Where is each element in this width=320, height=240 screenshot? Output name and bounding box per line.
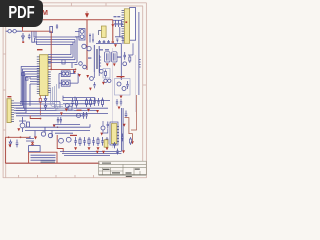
ground flag Q5 [34,137,37,140]
ground flag Q11 [65,109,68,112]
ground flag Q21 [89,88,92,91]
regulator U6 small yellow [104,140,108,147]
capacitor C17 [121,134,124,142]
label CN1 red [7,96,11,97]
wire feedback red-brown path [125,118,133,142]
decoupling caps C10-C12 under VCC [114,20,122,27]
wire lower left links [25,124,90,138]
ground flag aux [120,76,123,79]
audio amp box [115,79,131,96]
wire U6 links [103,121,108,134]
wire right vertical rail [138,12,140,95]
wire bus nest top-left [34,31,77,44]
wire aux bus lines [20,102,60,109]
comparator stage box B [61,80,70,86]
IC U3 body [124,9,129,44]
power flag arrow on B+ [85,11,88,18]
label red bus text [77,110,82,111]
ground flag left [17,128,20,131]
IC U1 main controller body [40,55,48,96]
ground flag C26 [118,107,121,110]
transistor Q14 [122,87,126,91]
wire red primary drop [50,31,52,69]
ground flag Q10 [86,75,89,78]
capacitor C15 [126,81,129,89]
diode D6 [9,140,12,148]
regulator U5 outline [110,122,118,145]
resistor R8 in box [105,70,107,78]
wire reset red path [30,116,40,119]
transistor Q19 [77,114,81,118]
polarity star mark [31,141,34,145]
capacitor C5 row above rail [98,40,110,43]
transistor Q15 [59,138,64,143]
node junction dot [75,69,77,71]
diode pair below U1 [44,96,47,111]
connector CN1 pins [11,101,14,122]
capacitor C19 [116,149,119,155]
transistor Q20 [101,126,105,130]
IC U3 pins [122,10,125,40]
title block text [102,163,140,177]
capacitor C22 pair [82,112,87,119]
net label text above caps [114,16,121,17]
node red dot mid [57,126,59,128]
transistor Q9 [79,62,83,66]
diode D7 pair [113,142,116,148]
winding aux [100,55,102,70]
ground flag Q9 [78,74,81,77]
capacitor C1 [28,34,31,40]
resistor R14 [130,137,132,145]
net stub end mark [112,41,114,43]
node dot red b [20,136,22,138]
ground flag R8 box [102,82,105,85]
red output box left vertical [4,137,6,163]
wire harness U1 left to CN1 [14,67,40,114]
wire red vertical left of band [57,135,63,152]
relay K1 box [29,146,40,152]
thermistor RT1 red below U1 [39,96,41,116]
capacitor C16 [125,111,128,118]
capacitor C26 pair below audio [116,99,122,106]
crystal cluster on harness [22,73,28,81]
diode D1 [22,33,25,41]
ground flag C9b [96,110,99,113]
ground flag E2 [113,63,116,66]
transistor Q6 [48,133,52,137]
wire red from U1 to regulators [43,68,76,70]
capacitor C20 [116,39,118,43]
ground flag Q20 [100,133,103,136]
ground flag R11 [87,109,90,112]
ground flags band row [74,147,108,150]
transistor Q17 [99,69,103,73]
wire main B+ red horizontal [43,20,113,70]
ground flag bus [60,112,63,115]
wire vertical pair right [121,108,123,152]
PDF badge overlay [0,0,43,27]
wire bus in red box [31,155,56,160]
wire gray corner pair [55,84,74,110]
electrolytic cap E1 [105,52,110,62]
ground flag audio [120,96,123,99]
label U1 red designator [37,49,43,50]
ground flag title area a [96,151,99,154]
wire box mid [62,60,65,64]
wire aux vertical [120,43,122,80]
node red dot [40,118,42,120]
transformer T1 [94,45,99,72]
wire bus U1 right nest [48,37,77,62]
regulator U4 small yellow body [101,26,106,37]
connector CN1 body [7,99,11,123]
comparator stage box A [61,71,70,77]
electrolytic cap E2 [112,52,117,62]
diode bridge D3 D4 [89,34,94,43]
wire red bottom long [5,162,99,164]
wire U3 lower links [115,27,123,44]
transistor Q5 [41,132,45,136]
transistor Q13 [117,82,121,86]
section divider line left [112,48,114,148]
transistor Q2 [87,46,91,50]
capacitor C24 top [56,24,58,29]
diode D2 mark [22,41,24,43]
wire band bus lines [60,151,121,155]
transistor Q1 [82,44,86,48]
snubber box lower [103,69,110,79]
transistor Q4 [66,72,69,75]
ground flag C19 [122,150,125,153]
inductor L2 bumps [139,60,141,68]
wire mid rails [63,96,110,104]
red inner frame box [29,152,57,163]
resistor R12 [129,55,131,63]
transistor Q16 [66,137,71,142]
sheet border frame [3,3,147,178]
ground flag C16 [123,124,126,127]
resistor R11 row [86,98,104,108]
ground flag secondary [114,44,117,47]
inductor L3 [26,136,34,141]
IC U1 right pins [48,57,51,93]
IC U1 left pins [37,57,40,94]
varistor RV1 [50,27,53,33]
power flag on B+ drop [111,24,114,27]
fuse F1 and inductor L1 on AC input [6,30,23,33]
ground flag mid bus [53,125,56,128]
wire AC red segment [23,28,52,32]
node dot red a [8,136,10,138]
capacitor C23 [107,122,109,129]
wire stage links [59,63,78,89]
capacitor bank row [74,137,108,146]
wire secondary rail [96,42,121,44]
power flag feedback [131,141,134,144]
wire lower rail A [53,124,80,126]
label red band text [70,135,77,136]
node junction dot b [50,69,52,71]
transistor Q22 [104,79,107,82]
wire input branch [32,31,35,42]
wire transformer secondary drops [94,72,99,78]
capacitor C21 pair [57,117,62,124]
label red above audio box [117,76,125,77]
red output box top [5,136,30,138]
U5 pins [117,127,119,142]
ground flag title area b [102,151,105,154]
transistor Q10 [83,65,87,69]
wire feedback brown right [131,95,137,130]
optocoupler PC1 [75,29,85,40]
capacitor C7 column [123,52,126,60]
wire U4 input [99,31,102,36]
crystal Y1 cluster [19,117,30,132]
capacitor C18 [16,140,19,148]
op-amp U3 outline box [130,8,136,41]
transistor Q21 [90,77,94,81]
transistor Q8 [66,82,69,85]
page background [0,0,149,198]
connector J2 gray segment [41,161,56,162]
transistor Q18 [123,62,127,66]
transistor Q23 [108,79,111,82]
wire aux link [128,43,133,55]
ground flag at B+ node [73,71,76,74]
transistor Q7 [62,82,65,85]
capacitor C25 [93,82,95,88]
section divider line right [135,55,137,112]
transformer T1 core [96,49,97,69]
title block table [99,161,147,175]
wire VCC link blue [113,19,122,21]
net label specks blue [88,49,121,58]
ground flag E1 [106,63,109,66]
capacitor C9 [71,98,74,106]
transistor Q11 [65,104,69,108]
resistor R10 [76,98,78,108]
junction box bus [68,106,72,110]
wire main data bus horizontal [16,108,108,116]
pin mark red U3 [125,21,127,23]
ground flag D6 [8,144,11,147]
wire corner bundle blue [51,87,63,106]
power flag on AC node [21,26,24,29]
regulator U5 body [111,124,116,144]
transistor Q3 [62,72,65,75]
title block bottom heavy line [99,174,147,176]
